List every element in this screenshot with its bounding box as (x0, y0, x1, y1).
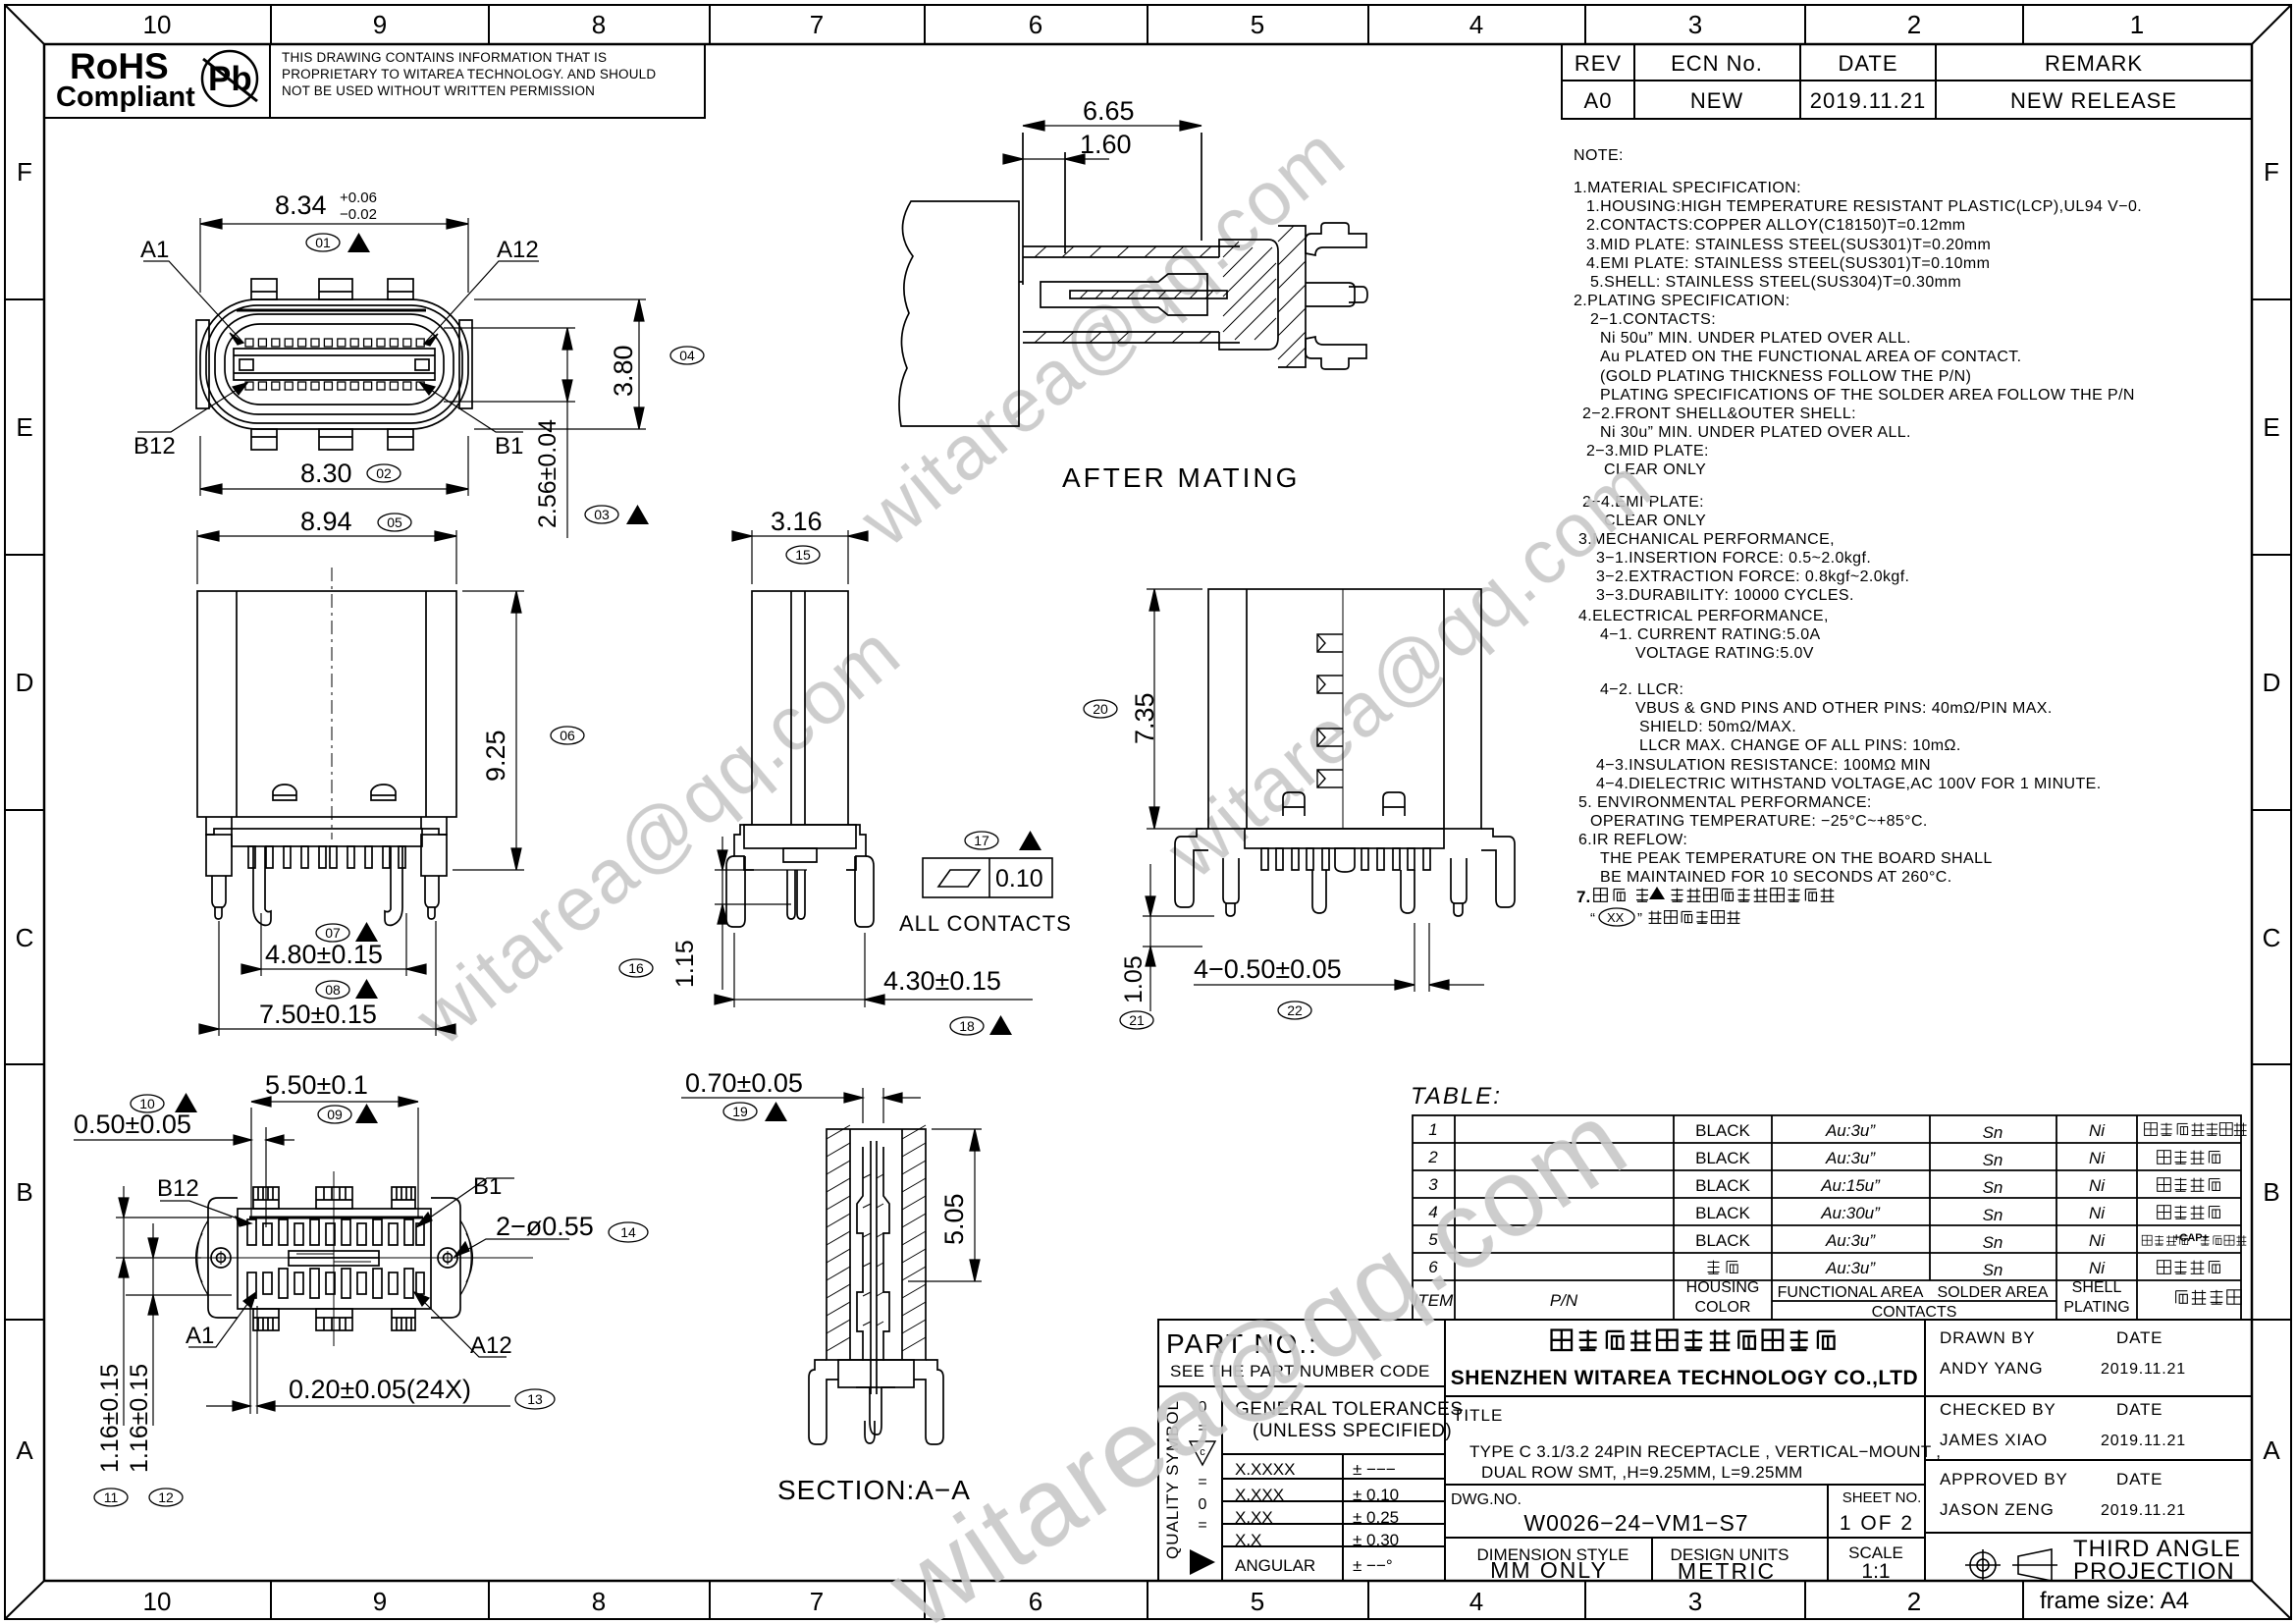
svg-text:1: 1 (1428, 1120, 1437, 1139)
tolerance rows (1222, 1478, 1445, 1480)
long pin left-mid (1312, 870, 1326, 913)
left end flange (208, 1198, 238, 1318)
svg-text:PROJECTION: PROJECTION (2073, 1558, 2235, 1585)
svg-text:2: 2 (1907, 1587, 1921, 1616)
svg-text:4−0.50±0.05: 4−0.50±0.05 (1194, 954, 1342, 984)
svg-text:Au PLATED ON THE FUNCTIONAL AR: Au PLATED ON THE FUNCTIONAL AREA OF CONT… (1600, 349, 2022, 365)
body outline (1208, 589, 1481, 829)
left wall inner (849, 1129, 851, 1360)
top weld tab left (251, 279, 277, 299)
ext line left (1022, 133, 1024, 285)
svg-text:“: “ (1590, 910, 1595, 927)
svg-text:20: 20 (1093, 701, 1108, 717)
title block (1158, 1320, 2252, 1585)
svg-text:4: 4 (1469, 1587, 1483, 1616)
left band dividers (5, 299, 44, 1320)
svg-text:NOTE:: NOTE: (1574, 147, 1624, 164)
bottom flange left (1175, 829, 1208, 907)
svg-text:DATE: DATE (2116, 1470, 2163, 1489)
dimension 8.34 (200, 218, 468, 293)
svg-text:10: 10 (139, 1096, 155, 1111)
svg-text:1.16±0.15: 1.16±0.15 (126, 1364, 153, 1473)
top band dividers (271, 5, 2023, 44)
svg-text:C: C (16, 923, 34, 952)
svg-text:1: 1 (2130, 10, 2144, 39)
tongue right key (415, 359, 429, 370)
quality symbol column (1163, 1399, 1215, 1575)
svg-text:ECN No.: ECN No. (1671, 51, 1763, 76)
svg-text:2019.11.21: 2019.11.21 (2101, 1361, 2186, 1378)
right post and pin (421, 835, 447, 876)
latch window left (273, 785, 296, 800)
balloon 01 (306, 234, 340, 251)
svg-text:A1: A1 (186, 1323, 214, 1349)
company col (1444, 1320, 1446, 1581)
outer of title block (1158, 1320, 2252, 1581)
svg-text:B1: B1 (473, 1173, 502, 1200)
svg-text:THE PEAK TEMPERATURE ON THE BO: THE PEAK TEMPERATURE ON THE BOARD SHALL (1600, 850, 1993, 867)
bottom weld tab mid (319, 429, 352, 450)
svg-text:7: 7 (810, 1587, 824, 1616)
svg-text:2−1.CONTACTS:: 2−1.CONTACTS: (1590, 311, 1716, 328)
part no box bottom (1158, 1385, 1445, 1387)
svg-text:ALL CONTACTS: ALL CONTACTS (899, 911, 1072, 936)
receptacle body hatched (1219, 240, 1278, 350)
plug block (899, 201, 1019, 426)
svg-text:Au:15u”: Au:15u” (1820, 1176, 1881, 1195)
EMI spring hooks (1317, 634, 1343, 787)
dimension 3.80 (474, 299, 646, 429)
dim 1.15 (715, 837, 807, 990)
svg-text:09: 09 (327, 1107, 343, 1122)
svg-text:A1: A1 (140, 237, 169, 263)
svg-text:LLCR MAX. CHANGE OF ALL PINS:: LLCR MAX. CHANGE OF ALL PINS: 10mΩ. (1639, 737, 1961, 754)
left rivet (211, 1248, 231, 1268)
top mount finger (1306, 223, 1366, 255)
dim 0.70 (681, 1088, 921, 1123)
dim 1.05 (1143, 864, 1214, 1011)
svg-text:MM ONLY: MM ONLY (1490, 1557, 1608, 1583)
svg-text:3−3.DURABILITY: 10000 CYCLES.: 3−3.DURABILITY: 10000 CYCLES. (1596, 587, 1854, 604)
view: SECTION A-A (681, 1068, 982, 1505)
pin row (1261, 848, 1430, 870)
dim 9.25 (453, 591, 524, 870)
svg-text:04: 04 (679, 348, 695, 363)
svg-text:19: 19 (732, 1104, 748, 1119)
bottom block (809, 1360, 838, 1444)
tol header bottom (1222, 1453, 1445, 1455)
svg-text:Sn: Sn (1983, 1178, 2003, 1197)
top serrated tabs (253, 1187, 415, 1209)
svg-text:Sn: Sn (1983, 1123, 2003, 1142)
label B12 (137, 383, 247, 432)
plug pin in shell (1041, 274, 1207, 315)
label B1 (420, 383, 523, 432)
svg-text:OPERATING TEMPERATURE: −25°C~+: OPERATING TEMPERATURE: −25°C~+85°C. (1590, 813, 1928, 830)
svg-text:8.94: 8.94 (300, 507, 352, 536)
third angle projection (1965, 1536, 2241, 1585)
svg-text:X.X: X.X (1235, 1531, 1261, 1549)
quality col right (1221, 1386, 1223, 1581)
svg-text:Au:3u”: Au:3u” (1825, 1259, 1876, 1277)
svg-text:Ni: Ni (2089, 1231, 2106, 1250)
svg-text:07: 07 (325, 925, 341, 941)
svg-text:6.IR REFLOW:: 6.IR REFLOW: (1578, 832, 1687, 848)
dim 4.80 (241, 913, 426, 976)
svg-text:1.60: 1.60 (1080, 130, 1132, 159)
svg-text:Pb: Pb (208, 60, 252, 98)
label B12 (160, 1201, 251, 1226)
svg-text:Sn: Sn (1983, 1151, 2003, 1169)
note line 7 chinese (pseudo glyphs) (1576, 887, 1834, 927)
shell body (197, 591, 456, 817)
centerlines (333, 1171, 335, 1346)
svg-text:1.HOUSING:HIGH TEMPERATURE RES: 1.HOUSING:HIGH TEMPERATURE RESISTANT PLA… (1586, 198, 2142, 215)
svg-text:+CAP+: +CAP+ (2173, 1232, 2209, 1244)
svg-text:4.80±0.15: 4.80±0.15 (265, 940, 383, 969)
svg-text:ANDY YANG: ANDY YANG (1940, 1359, 2043, 1378)
svg-text:A12: A12 (497, 237, 539, 263)
svg-text:9: 9 (373, 1587, 387, 1616)
shell second outline (206, 305, 462, 423)
svg-text:Au:3u”: Au:3u” (1825, 1231, 1876, 1250)
svg-text:Ni: Ni (2089, 1149, 2106, 1167)
label A12 (424, 261, 539, 346)
plug pin barrel (1019, 281, 1023, 283)
svg-text:4.30±0.15: 4.30±0.15 (883, 966, 1001, 996)
emphasized shield edge (237, 309, 426, 312)
svg-text:DATE: DATE (2116, 1328, 2163, 1347)
shell wall left line (236, 591, 238, 817)
svg-text:witarea@qq.com: witarea@qq.com (843, 109, 1362, 564)
center contact column (857, 1147, 863, 1361)
svg-text:08: 08 (325, 982, 341, 998)
svg-text:2019.11.21: 2019.11.21 (1810, 88, 1926, 113)
svg-text:JASON ZENG: JASON ZENG (1940, 1500, 2055, 1519)
label A1 (143, 261, 243, 345)
bottom weld tab left (251, 429, 277, 450)
svg-text:5. ENVIRONMENTAL PERFORMANCE:: 5. ENVIRONMENTAL PERFORMANCE: (1578, 794, 1872, 811)
svg-text:D: D (2263, 668, 2281, 697)
svg-text:Ni 30u” MIN. UNDER PLATED OVER: Ni 30u” MIN. UNDER PLATED OVER ALL. (1600, 424, 1911, 441)
shell outer stadium (200, 299, 468, 429)
view: bottom PCB footprint view (74, 1070, 648, 1506)
svg-text:ANGULAR: ANGULAR (1235, 1556, 1315, 1575)
svg-text:10: 10 (143, 1587, 172, 1616)
svg-text:CHECKED BY: CHECKED BY (1940, 1400, 2056, 1419)
view: AFTER MATING assembly (899, 96, 1367, 493)
dim 4-0.50 (1194, 923, 1484, 992)
svg-text:DATE: DATE (2116, 1400, 2163, 1419)
svg-text:22: 22 (1287, 1002, 1303, 1018)
svg-text:DRAWN BY: DRAWN BY (1940, 1328, 2035, 1347)
corner diagonal bottom-right (2252, 1581, 2291, 1619)
svg-text:± −−−: ± −−− (1353, 1460, 1396, 1479)
dim 5.50 (251, 1097, 418, 1218)
NOTE specification text (1574, 147, 2142, 886)
base block (734, 825, 866, 870)
centerline (331, 568, 333, 839)
dim 1.60 (1003, 154, 1109, 164)
latch bump left (1283, 792, 1305, 816)
svg-text:BLACK: BLACK (1695, 1121, 1750, 1140)
view: front elevation 8.94x9.25 (197, 507, 584, 1036)
svg-text:4.ELECTRICAL PERFORMANCE,: 4.ELECTRICAL PERFORMANCE, (1578, 608, 1829, 624)
svg-text:A: A (16, 1435, 33, 1465)
view: side elevation 7.35 (1084, 589, 1515, 1029)
svg-text:PLATING: PLATING (2063, 1299, 2129, 1316)
svg-text:frame size: A4: frame size: A4 (2040, 1588, 2189, 1614)
center slot (289, 1251, 379, 1266)
right col (1924, 1320, 1926, 1581)
svg-text:2019.11.21: 2019.11.21 (2101, 1502, 2186, 1519)
svg-text:DATE: DATE (1838, 51, 1897, 76)
svg-text:0: 0 (1199, 1496, 1207, 1513)
svg-text:Ni: Ni (2089, 1259, 2106, 1277)
svg-text:Ni: Ni (2089, 1204, 2106, 1222)
svg-text:1 OF 2: 1 OF 2 (1840, 1512, 1914, 1535)
svg-text:4−2. LLCR:: 4−2. LLCR: (1600, 681, 1683, 698)
center hatch (863, 1174, 883, 1326)
svg-text:5.50±0.1: 5.50±0.1 (265, 1070, 368, 1100)
body (238, 1209, 431, 1309)
svg-text:3: 3 (1688, 1587, 1702, 1616)
svg-text:8: 8 (592, 10, 606, 39)
bottom serrated tabs (253, 1309, 415, 1330)
svg-text:W0026−24−VM1−S7: W0026−24−VM1−S7 (1523, 1510, 1748, 1536)
contacts top row (245, 339, 424, 347)
svg-text:± 0.10: ± 0.10 (1353, 1486, 1399, 1504)
svg-text:NEW RELEASE: NEW RELEASE (2010, 88, 2177, 113)
svg-text:APPROVED BY: APPROVED BY (1940, 1470, 2068, 1489)
svg-text:3−2.EXTRACTION FORCE: 0.8kgf~2: 3−2.EXTRACTION FORCE: 0.8kgf~2.0kgf. (1596, 568, 1909, 585)
svg-text:P/N: P/N (1550, 1291, 1578, 1310)
right wall inner (901, 1129, 903, 1360)
svg-text:TYPE C 3.1/3.2 24PIN RECEPTACL: TYPE C 3.1/3.2 24PIN RECEPTACLE , VERTIC… (1469, 1442, 1941, 1461)
svg-text:Ni 50u” MIN. UNDER PLATED OVER: Ni 50u” MIN. UNDER PLATED OVER ALL. (1600, 330, 1911, 347)
dim 6.65 (1023, 121, 1201, 131)
svg-text:4−3.INSULATION RESISTANCE: 100: 4−3.INSULATION RESISTANCE: 100MΩ MIN (1596, 757, 1931, 774)
long pin right-mid (1401, 870, 1415, 913)
right foot (855, 856, 874, 927)
receptacle rear block (1278, 226, 1306, 367)
svg-text:HOUSING: HOUSING (1686, 1279, 1760, 1296)
left post pin (1223, 858, 1239, 903)
latch window right (371, 785, 396, 800)
svg-text:NEW: NEW (1690, 88, 1743, 113)
svg-text:9: 9 (373, 10, 387, 39)
svg-text:0.50±0.05: 0.50±0.05 (74, 1110, 191, 1139)
tongue left key (240, 359, 253, 370)
svg-text:METRIC: METRIC (1678, 1558, 1776, 1584)
svg-text:7.35: 7.35 (1130, 692, 1159, 744)
svg-text:21: 21 (1129, 1012, 1145, 1028)
svg-text:(GOLD PLATING THICKNESS FOLLOW: (GOLD PLATING THICKNESS FOLLOW THE P/N) (1600, 368, 1971, 385)
svg-text:CONTACTS: CONTACTS (1872, 1304, 1957, 1321)
svg-text:17: 17 (974, 833, 989, 848)
watermarks witarea@qq.com (399, 109, 1669, 1624)
svg-text:5: 5 (1251, 1587, 1264, 1616)
svg-text:5.SHELL: STAINLESS STEEL(SUS30: 5.SHELL: STAINLESS STEEL(SUS304)T=0.30mm (1590, 274, 1961, 291)
ext line 1.60 (1064, 152, 1066, 253)
drawn/checked/approved (1940, 1328, 2186, 1519)
svg-text:DUAL ROW SMT, ,H=9.25MM, L=9.2: DUAL ROW SMT, ,H=9.25MM, L=9.25MM (1481, 1463, 1803, 1482)
svg-text:SOLDER AREA: SOLDER AREA (1938, 1284, 2049, 1301)
svg-text:Ni: Ni (2089, 1121, 2106, 1140)
svg-text:SHEET NO.: SHEET NO. (1842, 1489, 1922, 1506)
svg-text:DWG.NO.: DWG.NO. (1451, 1491, 1522, 1508)
svg-text:REMARK: REMARK (2045, 51, 2143, 76)
dim 4.30 (715, 933, 1033, 1007)
svg-text:2.CONTACTS:COPPER ALLOY(C18150: 2.CONTACTS:COPPER ALLOY(C18150)T=0.12mm (1586, 217, 1966, 234)
emphasized edge (249, 1217, 423, 1219)
column inner line b (804, 591, 806, 825)
svg-text:1.05: 1.05 (1120, 955, 1148, 1003)
svg-text:SECTION:A−A: SECTION:A−A (777, 1475, 971, 1505)
svg-text:E: E (2263, 412, 2279, 442)
dim 3.16 (732, 530, 868, 584)
label B1 (416, 1178, 514, 1227)
svg-text:16: 16 (628, 960, 644, 976)
view: mating face front view (133, 189, 704, 538)
svg-text:8: 8 (592, 1587, 606, 1616)
svg-text:witarea@qq.com: witarea@qq.com (399, 608, 917, 1062)
svg-text:B: B (16, 1177, 32, 1207)
svg-text:3.16: 3.16 (771, 507, 823, 536)
svg-text:14: 14 (620, 1224, 636, 1240)
svg-text:7.50±0.15: 7.50±0.15 (259, 1000, 377, 1029)
center pin (870, 1141, 872, 1394)
right pin (1306, 283, 1355, 306)
svg-text:−0.02: −0.02 (340, 206, 377, 223)
bottom flange right (1481, 829, 1515, 907)
label A1 (188, 1292, 256, 1347)
left post and pin (206, 835, 232, 876)
inner line right (1443, 589, 1445, 829)
svg-text:± −−°: ± −−° (1353, 1556, 1393, 1575)
top weld tab right (388, 279, 413, 299)
svg-text:BE MAINTAINED FOR 10 SECONDS A: BE MAINTAINED FOR 10 SECONDS AT 260°C. (1600, 869, 1952, 886)
base bar (1245, 829, 1444, 848)
dim 7.35 (1147, 589, 1202, 829)
svg-text:3.80: 3.80 (609, 345, 638, 397)
svg-text:BLACK: BLACK (1695, 1204, 1750, 1222)
svg-text:1.MATERIAL SPECIFICATION:: 1.MATERIAL SPECIFICATION: (1574, 180, 1801, 196)
tongue bar (234, 349, 435, 380)
svg-text:2019.11.21: 2019.11.21 (2101, 1433, 2186, 1449)
svg-text:0.10: 0.10 (995, 865, 1043, 893)
svg-text:E: E (16, 412, 32, 442)
svg-text:F: F (17, 157, 32, 187)
right band dividers (2252, 299, 2291, 1320)
center tongue (1335, 848, 1355, 872)
dim 7.50 (199, 921, 455, 1036)
svg-text:Sn: Sn (1983, 1233, 2003, 1252)
svg-text:0.20±0.05(24X): 0.20±0.05(24X) (289, 1375, 471, 1404)
svg-text:F: F (2264, 157, 2279, 187)
svg-text:Compliant: Compliant (56, 81, 195, 113)
svg-text:01: 01 (315, 235, 331, 250)
svg-text:”: ” (1637, 910, 1642, 927)
svg-text:AFTER MATING: AFTER MATING (1062, 462, 1300, 493)
svg-text:2: 2 (1427, 1148, 1438, 1166)
svg-text:7.: 7. (1576, 888, 1590, 906)
revision table (1562, 44, 2252, 119)
svg-text:B1: B1 (495, 433, 523, 460)
svg-text:8.34: 8.34 (275, 190, 327, 220)
company (1552, 1330, 1835, 1350)
top teeth row (247, 1219, 424, 1245)
svg-text:2: 2 (1907, 10, 1921, 39)
svg-text:6.65: 6.65 (1083, 96, 1135, 126)
inner line left (1246, 589, 1248, 829)
right side tab (459, 320, 472, 408)
CJK cells col7 (1708, 1123, 2247, 1305)
svg-text:13: 13 (527, 1391, 543, 1407)
svg-text:5.05: 5.05 (939, 1193, 969, 1245)
svg-text:B: B (2263, 1177, 2279, 1207)
svg-text:15: 15 (795, 547, 811, 563)
svg-text:11: 11 (104, 1489, 119, 1505)
svg-text:4−1. CURRENT RATING:5.0A: 4−1. CURRENT RATING:5.0A (1600, 626, 1821, 643)
svg-text:6: 6 (1029, 1587, 1042, 1616)
svg-text:COLOR: COLOR (1695, 1299, 1751, 1316)
bottom mount finger (1306, 337, 1366, 369)
svg-text:1.15: 1.15 (671, 940, 699, 988)
dim 0.50 (74, 1127, 294, 1227)
corner diagonal top-right (2252, 5, 2291, 44)
column outline (752, 591, 848, 825)
svg-text:A0: A0 (1584, 88, 1613, 113)
svg-text:XX: XX (1607, 910, 1625, 925)
wall hatch (827, 1125, 926, 1351)
dim 1.16 left (11) (116, 1186, 232, 1426)
left side tab (196, 320, 209, 408)
svg-text:BLACK: BLACK (1695, 1231, 1750, 1250)
svg-text:18: 18 (959, 1018, 975, 1034)
svg-text:4.EMI PLATE: STAINLESS STEEL(S: 4.EMI PLATE: STAINLESS STEEL(SUS301)T=0.… (1586, 255, 1990, 272)
svg-text:X.XXXX: X.XXXX (1235, 1460, 1295, 1479)
RoHS compliant block (44, 44, 705, 118)
bottom band dividers (271, 1581, 2023, 1619)
svg-text:4−4.DIELECTRIC WITHSTAND VOLTA: 4−4.DIELECTRIC WITHSTAND VOLTAGE,AC 100V… (1596, 776, 2102, 792)
svg-text:(UNLESS SPECIFIED): (UNLESS SPECIFIED) (1253, 1421, 1452, 1441)
svg-text:05: 05 (387, 514, 402, 530)
mid J-leg left (253, 846, 271, 925)
column inner line a (790, 591, 792, 825)
svg-text:12: 12 (158, 1489, 174, 1505)
svg-text:Au:30u”: Au:30u” (1820, 1204, 1881, 1222)
svg-text:5: 5 (1251, 10, 1264, 39)
svg-text:THIS DRAWING CONTAINS INFORMAT: THIS DRAWING CONTAINS INFORMATION THAT I… (282, 50, 607, 65)
svg-text:Au:3u”: Au:3u” (1825, 1149, 1876, 1167)
svg-text:PROPRIETARY TO WITAREA TECHNOL: PROPRIETARY TO WITAREA TECHNOLOGY. AND S… (282, 67, 656, 81)
cavity outline (225, 324, 444, 405)
shell wall right line (425, 591, 427, 817)
svg-text:8.30: 8.30 (300, 459, 352, 488)
proprietary notice (282, 50, 656, 98)
svg-text:Ni: Ni (2089, 1176, 2106, 1195)
center seam (1342, 589, 1344, 829)
dim 5.05 (908, 1129, 982, 1281)
svg-text:JAMES XIAO: JAMES XIAO (1940, 1431, 2048, 1449)
svg-text:B12: B12 (133, 433, 176, 460)
svg-text:SHELL: SHELL (2072, 1279, 2122, 1296)
svg-text:03: 03 (594, 507, 610, 522)
svg-text:A: A (2263, 1435, 2280, 1465)
contacts bottom row (245, 382, 424, 390)
svg-text:2−ø0.55: 2−ø0.55 (496, 1212, 594, 1241)
